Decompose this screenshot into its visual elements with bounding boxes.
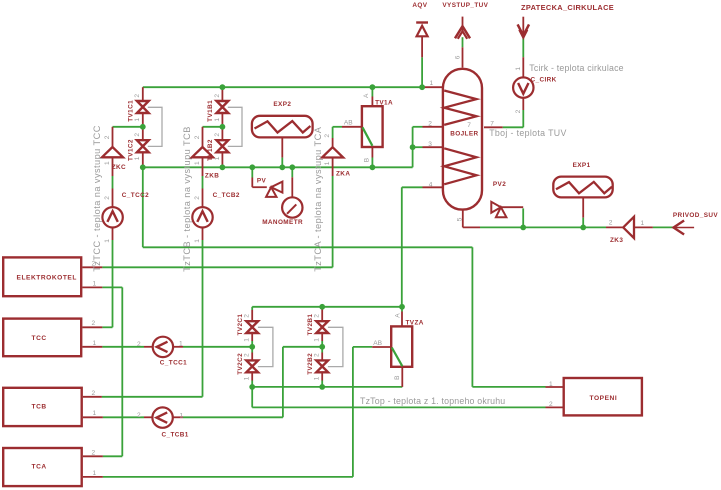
svg-text:2: 2	[314, 314, 321, 318]
svg-text:7: 7	[490, 120, 494, 127]
label TV1B2	[207, 139, 214, 161]
label TV2C2	[237, 353, 244, 375]
wire ZKB to pump C_TCB2	[202, 157, 204, 207]
svg-text:1: 1	[515, 67, 522, 71]
wire net row y126.8 C	[113, 126, 143, 128]
wire TV1A pin A stub	[371, 87, 373, 106]
svg-text:Tcirk - teplota cirkulace: Tcirk - teplota cirkulace	[529, 63, 623, 73]
wire net row y126.8 B	[203, 126, 223, 128]
wire ZKC pin2 stub	[112, 127, 114, 147]
svg-text:1: 1	[314, 376, 321, 380]
label TzTCB	[182, 126, 192, 272]
svg-text:TV1A: TV1A	[375, 99, 393, 106]
block TCC	[3, 319, 81, 357]
gauge MANOMETR	[282, 197, 302, 217]
label C_TCC1	[160, 359, 187, 366]
label AQV	[412, 2, 427, 9]
svg-text:EXP1: EXP1	[573, 162, 591, 169]
svg-text:TOPENI: TOPENI	[590, 395, 618, 402]
label TV2B2	[307, 353, 314, 375]
wire boiler pin7 net	[484, 98, 523, 128]
check valve ZKA	[322, 147, 343, 157]
wire TCB pin2 net	[83, 396, 203, 398]
wire ZKC to pump C_TCC2	[112, 157, 114, 207]
supply symbol AQV	[416, 21, 428, 36]
svg-text:1: 1	[134, 156, 141, 160]
expansion vessel EXP2	[252, 116, 313, 138]
label TV1C1	[128, 100, 135, 122]
label TV1C2	[128, 139, 135, 161]
label PV2	[493, 181, 506, 188]
wire ZKB pin2 stub	[202, 127, 204, 147]
svg-text:2: 2	[92, 449, 96, 456]
valve TV1B1	[217, 101, 229, 113]
label TV2C1	[237, 314, 244, 336]
arrow symbol PRIVOD_SUV	[674, 221, 685, 235]
label TzTop	[360, 396, 505, 406]
svg-text:2: 2	[214, 94, 221, 98]
svg-text:1: 1	[179, 341, 183, 348]
wire TV1C column upper	[142, 87, 144, 101]
wire boiler pin5 bottom net	[463, 210, 623, 228]
svg-text:1: 1	[244, 376, 251, 380]
svg-text:1: 1	[93, 281, 97, 288]
svg-text:C_TCB2: C_TCB2	[213, 192, 240, 199]
wire TCC pin2 net	[82, 326, 112, 328]
svg-text:ZPATECKA_CIRKULACE: ZPATECKA_CIRKULACE	[521, 3, 614, 12]
node junctions row 126.8	[140, 124, 225, 130]
valve TV1C1	[137, 101, 149, 113]
svg-text:VYSTUP_TUV: VYSTUP_TUV	[442, 2, 488, 9]
wire gray bypass around TV2C1/TV2C2	[258, 327, 273, 366]
svg-text:A: A	[395, 313, 402, 318]
svg-text:1: 1	[104, 239, 111, 243]
svg-text:ZKC: ZKC	[112, 164, 126, 171]
svg-text:2: 2	[137, 341, 141, 348]
arrow symbol VYSTUP_TUV	[455, 26, 470, 39]
svg-text:2: 2	[194, 135, 201, 139]
wire TVZA pin A stub	[401, 307, 403, 327]
label ZPATECKA_CIRKULACE	[521, 3, 614, 12]
svg-text:1: 1	[104, 161, 111, 165]
svg-text:1: 1	[549, 381, 553, 388]
wire net long row y167.3	[143, 152, 413, 167]
svg-text:C_TCC1: C_TCC1	[160, 359, 187, 366]
wire TV2C1 stubs	[251, 307, 253, 361]
svg-text:2: 2	[515, 109, 522, 113]
mixing valve TVZA	[391, 326, 412, 366]
svg-text:C_TCC2: C_TCC2	[122, 192, 149, 199]
wire TV2B1 stubs	[321, 307, 323, 361]
svg-text:2: 2	[104, 196, 111, 200]
svg-text:1: 1	[180, 412, 184, 419]
svg-text:MANOMETR: MANOMETR	[262, 219, 303, 226]
wire pump C_TCB1 up to TV2B junction	[173, 347, 322, 418]
label Tboj	[489, 128, 567, 138]
svg-text:1: 1	[214, 118, 221, 122]
svg-text:ZKB: ZKB	[205, 173, 219, 180]
svg-text:TzTCC - teplota na vystupu TCC: TzTCC - teplota na vystupu TCC	[92, 125, 102, 272]
svg-text:AQV: AQV	[412, 2, 427, 9]
check valve ZK3	[623, 217, 634, 238]
svg-text:2: 2	[194, 196, 201, 200]
wire gray bypass around TV2B1/TV2B2	[328, 327, 343, 366]
wire PV branch	[252, 167, 266, 187]
svg-text:2: 2	[324, 134, 331, 138]
wire pump C_TCC1 to TV2C junction	[173, 346, 252, 348]
svg-text:ZKA: ZKA	[336, 171, 350, 178]
check valve ZKC	[102, 147, 123, 157]
node junctions top row	[220, 84, 426, 90]
label C_CIRK	[531, 77, 557, 84]
svg-text:A: A	[363, 93, 370, 98]
wire ZK3 to PRIVOD_SUV	[634, 226, 694, 228]
svg-text:1: 1	[93, 340, 97, 347]
label C_TCB2	[213, 192, 240, 199]
svg-text:2: 2	[92, 260, 96, 267]
wire EXP1 stem	[582, 197, 584, 227]
boiler BOJLER vessel	[443, 69, 482, 210]
svg-text:2: 2	[244, 353, 251, 357]
wire TCC pin1 to pump C_TCC1	[82, 346, 152, 348]
svg-text:B: B	[364, 157, 371, 162]
wire TV1C mid column	[142, 113, 144, 140]
wire TOPENI pin1 net	[472, 386, 562, 388]
svg-text:1: 1	[314, 338, 321, 342]
svg-text:1: 1	[214, 156, 221, 160]
svg-text:C_CIRK: C_CIRK	[531, 77, 557, 84]
safety valve PV	[266, 182, 282, 197]
pump C_CIRK	[513, 77, 533, 97]
svg-text:2: 2	[428, 120, 432, 127]
svg-text:TCC: TCC	[32, 335, 47, 342]
expansion vessel EXP1	[553, 177, 612, 198]
label VYSTUP_TUV	[442, 2, 488, 9]
svg-text:1: 1	[430, 80, 434, 87]
label C_TCC2	[122, 192, 149, 199]
svg-text:PRIVOD_SUV: PRIVOD_SUV	[673, 212, 719, 219]
label EXP1	[573, 162, 591, 169]
wire ELEKTROKOTEL pin1 net	[82, 287, 122, 456]
svg-text:EXP2: EXP2	[273, 101, 291, 108]
svg-text:TzTCA - teplota na vystupu TCA: TzTCA - teplota na vystupu TCA	[313, 126, 323, 271]
valve TV2B2	[316, 360, 328, 372]
svg-text:Tboj - teplota TUV: Tboj - teplota TUV	[489, 128, 567, 138]
wire pump C_TCC2 down to ELEKTROKOTEL net	[112, 227, 114, 327]
svg-text:B: B	[394, 375, 401, 380]
svg-text:2: 2	[92, 320, 96, 327]
svg-text:AB: AB	[344, 120, 353, 127]
svg-text:2: 2	[214, 133, 221, 137]
block ELEKTROKOTEL	[3, 257, 81, 296]
wire TOPENI pin2 net	[252, 387, 562, 408]
svg-text:2: 2	[609, 220, 613, 227]
svg-text:1: 1	[194, 239, 201, 243]
wire TV1B column upper	[221, 87, 223, 101]
label ZKA	[336, 171, 350, 178]
svg-text:1: 1	[93, 410, 97, 417]
wire boiler pin2 net	[413, 127, 442, 147]
svg-text:5: 5	[457, 217, 464, 221]
wire TCA pin2 net	[83, 455, 122, 457]
wire TV1B mid column	[221, 113, 223, 140]
label MANOMETR	[262, 219, 303, 226]
wire boiler pin3 net	[413, 147, 442, 167]
svg-text:3: 3	[428, 141, 432, 148]
svg-text:TVZA: TVZA	[406, 319, 424, 326]
valve TV1B2	[217, 140, 229, 152]
svg-text:6: 6	[454, 55, 461, 59]
valve TV2B1	[316, 321, 328, 333]
svg-text:2: 2	[104, 135, 111, 139]
block TCB	[3, 388, 82, 426]
wire ZKA down to ELEKTROKOTEL net	[332, 158, 334, 268]
label PRIVOD_SUV	[673, 212, 719, 219]
label ZKC	[112, 164, 126, 171]
label BOJLER	[450, 131, 478, 138]
wire net TV2 top row y306.8	[252, 306, 402, 308]
wire AQV stem	[421, 37, 423, 88]
svg-text:2: 2	[549, 401, 553, 408]
wire TV1A pin AB to ZKA	[333, 127, 362, 147]
pump C_TCB2	[192, 207, 212, 227]
svg-text:AB: AB	[373, 340, 382, 347]
svg-text:TCB: TCB	[32, 403, 47, 410]
label Tcirk	[529, 63, 623, 73]
node junctions row 167.3	[140, 164, 375, 170]
pump C_TCC2	[102, 207, 122, 227]
label ZK3	[610, 237, 623, 244]
svg-text:2: 2	[92, 390, 96, 397]
svg-text:BOJLER: BOJLER	[450, 131, 478, 138]
valve TV2C2	[246, 360, 258, 372]
svg-text:ELEKTROKOTEL: ELEKTROKOTEL	[17, 274, 77, 281]
svg-text:C_TCB1: C_TCB1	[162, 432, 189, 439]
arrow symbol ZPATECKA_CIRKULACE	[518, 24, 529, 37]
label C_TCB1	[162, 432, 189, 439]
wire TCA pin1 to TVZA AB	[83, 347, 391, 477]
valve TV1C2	[137, 140, 149, 152]
pump C_TCC1	[153, 337, 173, 357]
wire ELEKTROKOTEL pin2 net	[82, 266, 332, 268]
svg-text:2: 2	[314, 353, 321, 357]
wire net row y247.3	[143, 167, 473, 387]
node junctions TV2 rows	[249, 304, 405, 390]
svg-text:PV2: PV2	[493, 181, 506, 188]
valve TV2C1	[246, 321, 258, 333]
wire net top supply row y87	[143, 86, 442, 88]
label TVZA	[406, 319, 424, 326]
wire gray bypass around TV1C1/TV1C2	[148, 107, 162, 146]
svg-text:4: 4	[429, 182, 433, 189]
block TOPENI	[564, 378, 642, 415]
svg-text:2: 2	[244, 314, 251, 318]
wire TCB pin1 to pump C_TCB1	[83, 416, 152, 418]
mixing valve TV1A	[362, 106, 383, 147]
svg-text:1: 1	[324, 161, 331, 165]
labels pin numbers	[92, 55, 645, 477]
svg-text:1: 1	[641, 220, 645, 227]
svg-text:2: 2	[134, 94, 141, 98]
label ZKB	[205, 173, 219, 180]
label EXP2	[273, 101, 291, 108]
wire MANOMETR stem	[291, 167, 293, 197]
svg-text:PV: PV	[257, 178, 267, 185]
block TCA	[3, 448, 82, 486]
wire TV1A pin B stub	[371, 147, 373, 167]
svg-text:TzTop - teplota z 1. topneho o: TzTop - teplota z 1. topneho okruhu	[360, 396, 505, 406]
pump C_TCB1	[152, 407, 172, 427]
svg-text:1: 1	[194, 161, 201, 165]
check valve ZKB	[192, 147, 213, 157]
svg-text:2: 2	[137, 412, 141, 419]
wire pump C_TCB2 down / TCB pin2 riser	[202, 227, 204, 396]
wire net TV2 bottom row y386.9	[252, 367, 402, 387]
wire ZPATECKA to pump C_CIRK	[522, 17, 524, 78]
node junctions bottom boiler row	[520, 225, 586, 231]
label TV1A	[375, 99, 393, 106]
svg-text:1: 1	[93, 470, 97, 477]
svg-text:TzTCB - teplota na vystupu TCB: TzTCB - teplota na vystupu TCB	[182, 126, 192, 272]
wire boiler pin4 net	[402, 187, 442, 306]
node junction boiler pin3	[410, 144, 416, 150]
svg-text:7: 7	[467, 122, 471, 129]
wire gray bypass around TV1B1/TV1B2	[228, 107, 242, 146]
svg-text:1: 1	[244, 338, 251, 342]
svg-text:ZK3: ZK3	[610, 237, 623, 244]
label TV1B1	[207, 100, 214, 122]
label PV	[257, 178, 267, 185]
wire VYSTUP_TUV stem	[462, 17, 464, 68]
label TV2B1	[307, 314, 314, 336]
svg-text:TCA: TCA	[32, 464, 47, 471]
label TzTCA	[313, 126, 323, 271]
safety valve PV2	[491, 202, 506, 217]
svg-text:2: 2	[134, 133, 141, 137]
svg-text:1: 1	[134, 118, 141, 122]
wire EXP2 stem	[281, 137, 283, 167]
label TzTCC	[92, 125, 102, 272]
wire PV2 branch	[501, 207, 523, 227]
